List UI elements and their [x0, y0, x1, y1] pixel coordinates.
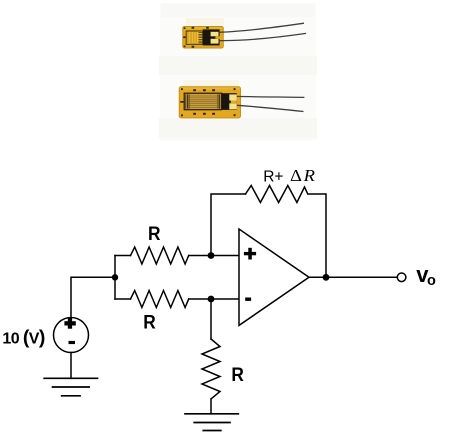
- wire: feedback left vertical: [211, 194, 246, 256]
- resistor R+dR feedback: [246, 186, 308, 203]
- comb teeth (right of grid): [198, 33, 202, 43]
- svg-text:10 (V): 10 (V): [2, 326, 44, 348]
- node: minus input: [208, 296, 215, 303]
- gauge 2 lead wires: [237, 96, 305, 97]
- svg-text:R: R: [231, 364, 244, 386]
- photo background: [160, 3, 316, 141]
- edge marks: [183, 27, 209, 48]
- wire: feedback right down to output: [308, 194, 326, 277]
- resistor R top: [131, 247, 189, 264]
- wire: source bottom to ground: [70, 353, 72, 379]
- dark tab block: [203, 29, 220, 45]
- grid window: [186, 31, 203, 44]
- svg-text:o: o: [427, 273, 436, 289]
- notch: [215, 36, 223, 39]
- comb teeth: [186, 94, 221, 108]
- svg-text:R: R: [148, 223, 161, 245]
- node: left branch junction: [112, 274, 118, 280]
- op-amp U1: [239, 229, 309, 325]
- op-amp plus sign: [244, 248, 256, 260]
- ground (bottom, under resistor): [185, 414, 238, 431]
- notch: [231, 101, 237, 104]
- strain gauge photo 1: [183, 23, 306, 48]
- wire: op-amp output: [309, 276, 397, 278]
- dark tab block: [222, 93, 237, 110]
- edge marks: [180, 88, 235, 116]
- junction dots: [112, 252, 330, 302]
- source minus sign: [69, 341, 76, 344]
- wire: bottom branch to op-amp minus input: [189, 298, 239, 300]
- solder tabs: [211, 32, 219, 37]
- ground (left, under source): [44, 378, 97, 396]
- gauge 1 lead wires: [219, 23, 304, 32]
- node: plus input: [208, 252, 215, 259]
- node: output junction: [323, 274, 330, 281]
- wire: minus node down to resistor: [210, 299, 212, 339]
- output terminal circle: [397, 273, 406, 282]
- wire: bottom branch lead-in: [115, 298, 131, 300]
- voltage source V1 circle: [54, 318, 89, 353]
- svg-text:R+: R+: [263, 168, 283, 185]
- solder tabs: [229, 94, 237, 100]
- wire: top branch lead-in: [115, 255, 131, 257]
- svg-text:ΔR: ΔR: [290, 166, 316, 185]
- svg-text:R: R: [143, 312, 156, 334]
- wire: source top to left junction: [71, 277, 115, 317]
- resistor R bottom: [131, 291, 189, 308]
- wire: resistor to ground: [210, 399, 212, 414]
- source plus sign: [64, 317, 75, 328]
- op-amp minus sign: [245, 298, 251, 301]
- strain gauge photo 2: [179, 87, 304, 118]
- resistor R vertical: [202, 339, 220, 399]
- grid window: [184, 93, 222, 110]
- wire: left riser between branches: [114, 256, 116, 300]
- wire: top branch to op-amp plus input: [189, 255, 239, 257]
